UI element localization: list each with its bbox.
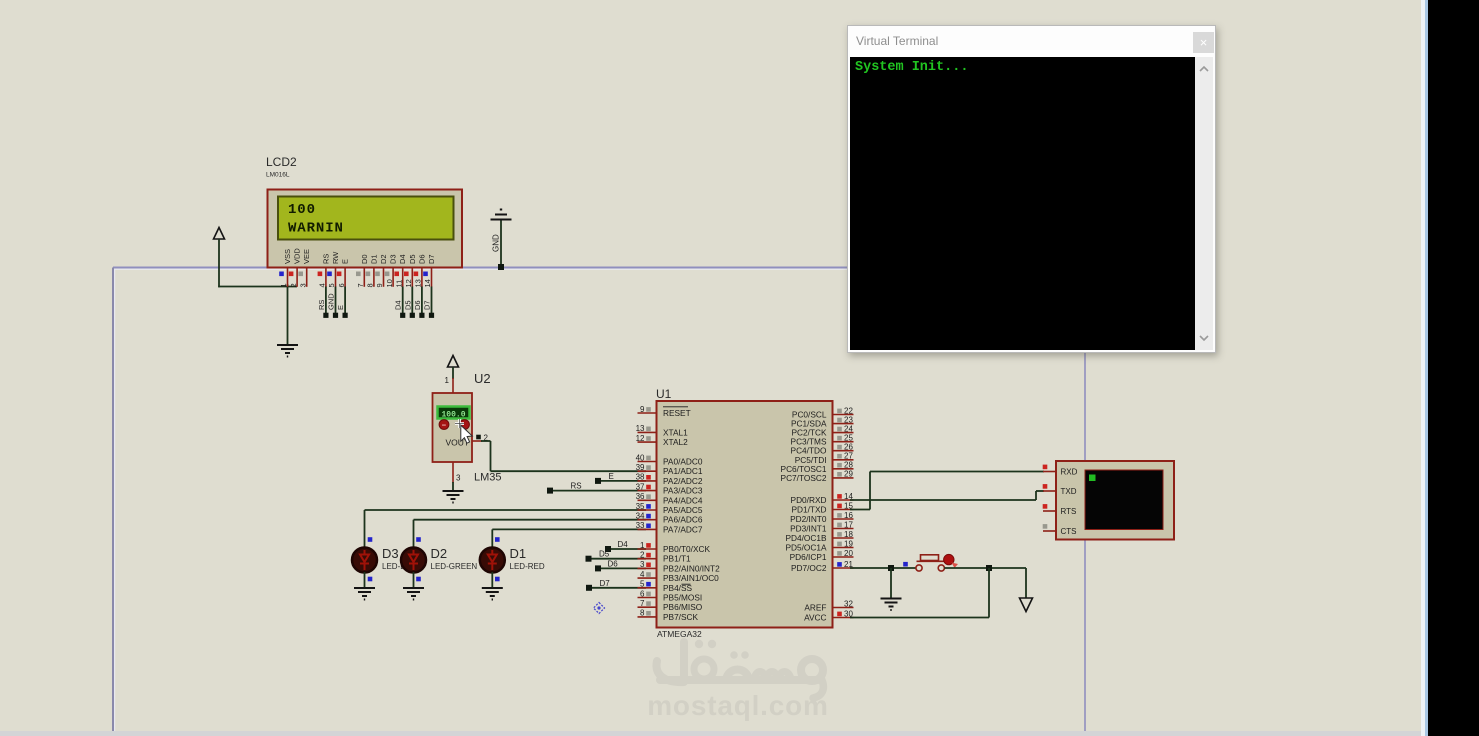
wire LCD net E <box>343 287 348 318</box>
svg-text:AREF: AREF <box>804 603 826 613</box>
svg-text:RXD: RXD <box>1061 468 1078 477</box>
svg-text:ATMEGA32: ATMEGA32 <box>657 629 702 639</box>
net label D5 <box>403 300 412 310</box>
wire net E to U1 PA2 <box>595 478 646 484</box>
sheet border right vertical <box>1084 353 1086 735</box>
svg-text:9: 9 <box>640 405 645 414</box>
svg-text:AVCC: AVCC <box>804 613 826 623</box>
LCD LCD2 body <box>268 190 463 268</box>
U1 pin 34 PA6/ADC6 <box>636 512 703 525</box>
svg-text:PA3/ADC3: PA3/ADC3 <box>663 486 703 496</box>
svg-text:3: 3 <box>298 283 307 287</box>
wire net RS to U1 PA3 <box>547 488 646 494</box>
ground LCD VSS <box>277 345 298 357</box>
wire D1 to ground <box>491 572 493 588</box>
U1 pin 29 PC7/TOSC2 <box>781 470 854 483</box>
svg-text:PB2/AIN0/INT2: PB2/AIN0/INT2 <box>663 563 720 573</box>
junction GND on border <box>498 264 504 270</box>
wire D2 to U1 PA6 <box>414 520 647 549</box>
watermark mostaql logo <box>657 640 824 698</box>
U1 pin 39 PA1/ADC1 <box>636 463 703 476</box>
terminal pin CTS <box>1043 524 1077 536</box>
svg-text:PB6/MISO: PB6/MISO <box>663 602 703 612</box>
LCD text line1 100 <box>288 202 316 218</box>
button component <box>916 554 958 571</box>
U1 pin 2 PB1/T1 <box>638 551 692 564</box>
svg-text:VSS: VSS <box>283 249 292 264</box>
svg-text:29: 29 <box>844 470 853 479</box>
svg-text:E: E <box>341 259 350 264</box>
terminal cursor block <box>1089 475 1096 482</box>
label D1 LED-RED <box>510 562 545 571</box>
U2 pin1 stub <box>445 376 453 394</box>
U1 pin 35 PA5/ADC5 <box>636 502 703 515</box>
svg-text:D6: D6 <box>608 559 619 568</box>
label D2 LED-GREEN <box>431 562 478 571</box>
svg-text:RS: RS <box>571 482 582 491</box>
svg-text:17: 17 <box>844 520 853 529</box>
svg-text:D7: D7 <box>423 300 432 310</box>
LED D3 state squares <box>368 537 373 581</box>
svg-text:18: 18 <box>844 530 853 539</box>
svg-text:D3: D3 <box>382 546 399 561</box>
label D3 LED type <box>382 562 406 571</box>
ground U2 <box>443 491 464 503</box>
bottom strip <box>0 731 1421 736</box>
svg-text:4: 4 <box>318 283 327 287</box>
U1 pin 32 AREF <box>804 599 853 612</box>
U1 pin 24 PC2/TCK <box>791 424 853 437</box>
svg-text:38: 38 <box>636 473 645 482</box>
svg-text:D6: D6 <box>417 254 426 264</box>
LCD LCD2 pin state squares <box>279 272 428 277</box>
svg-text:9: 9 <box>375 283 384 287</box>
ground D2 <box>403 588 424 600</box>
U1 pin 9 RESET <box>638 405 691 418</box>
wire U1 PD7 to button <box>850 567 917 569</box>
svg-text:D7: D7 <box>427 254 436 264</box>
svg-text:13: 13 <box>636 424 645 433</box>
svg-text:D5: D5 <box>403 300 412 310</box>
LCD LCD2 screen <box>278 197 454 240</box>
sheet border left vertical <box>113 268 115 736</box>
svg-text:16: 16 <box>844 511 853 520</box>
net label D4 <box>618 540 629 549</box>
power symbol U2 pin1 arrow <box>448 356 459 380</box>
wire LCD net RS <box>323 287 328 318</box>
svg-text:35: 35 <box>636 502 645 511</box>
U1 pin 28 PC6/TOSC1 <box>781 461 854 474</box>
label LCD2 <box>266 155 297 169</box>
wire VDD to LCD pin2 <box>218 286 297 288</box>
svg-text:WARNIN: WARNIN <box>288 221 344 237</box>
svg-text:40: 40 <box>636 453 645 462</box>
svg-text:PD5/OC1A: PD5/OC1A <box>785 543 827 553</box>
wire U1 PD0 to terminal TXD <box>850 491 1044 500</box>
svg-text:28: 28 <box>844 461 853 470</box>
U1 pin 15 PD1/TXD <box>791 501 853 514</box>
svg-text:PD1/TXD: PD1/TXD <box>791 505 826 515</box>
svg-text:U1: U1 <box>656 387 672 401</box>
svg-text:D6: D6 <box>413 300 422 310</box>
wire LCD net D5 <box>410 287 415 318</box>
svg-text:PC7/TOSC2: PC7/TOSC2 <box>781 473 827 483</box>
U1 pin 30 AVCC <box>804 609 853 622</box>
svg-text:6: 6 <box>640 589 645 598</box>
wire net D5 to U1 PB1 <box>586 556 647 562</box>
svg-text:7: 7 <box>356 283 365 287</box>
U1 pin 14 PD0/RXD <box>791 492 854 505</box>
svg-text:RTS: RTS <box>1061 507 1077 516</box>
origin marker <box>594 603 605 614</box>
svg-text:10: 10 <box>385 279 394 287</box>
svg-text:1: 1 <box>279 283 288 287</box>
svg-text:D7: D7 <box>600 579 611 588</box>
black bar right <box>1428 0 1479 736</box>
svg-text:34: 34 <box>636 512 645 521</box>
U1 pin 3 PB2/AIN0/INT2 <box>638 560 721 573</box>
svg-text:PD3/INT1: PD3/INT1 <box>790 524 827 534</box>
svg-text:1: 1 <box>640 541 645 550</box>
ground button <box>881 599 902 611</box>
svg-text:7: 7 <box>640 599 645 608</box>
svg-text:33: 33 <box>636 521 645 530</box>
svg-text:5: 5 <box>327 283 336 287</box>
svg-text:E: E <box>609 472 614 481</box>
net label E <box>336 305 345 310</box>
net label D7 <box>600 579 611 588</box>
wire D3 to ground <box>364 572 366 588</box>
wire junction to ground <box>890 568 892 599</box>
U2 down button <box>439 420 449 430</box>
svg-text:100: 100 <box>288 202 316 218</box>
U1 pin 20 PD6/ICP1 <box>790 549 854 562</box>
U1 pin 37 PA3/ADC3 <box>636 482 703 495</box>
svg-text:VDD: VDD <box>293 248 302 264</box>
U1 pin 1 PB0/T0/XCK <box>638 541 711 554</box>
power symbol VDD arrow <box>214 228 225 288</box>
mouse cursor <box>455 419 472 443</box>
svg-text:U2: U2 <box>474 371 491 386</box>
svg-text:LED-GREEN: LED-GREEN <box>431 562 478 571</box>
net label D6 <box>608 559 619 568</box>
svg-text:mostaql.com: mostaql.com <box>647 690 829 721</box>
label D2 <box>431 546 448 561</box>
svg-text:19: 19 <box>844 539 853 548</box>
svg-text:3: 3 <box>456 474 461 483</box>
U1 pin 23 PC1/SDA <box>791 415 854 428</box>
screen right edge highlight <box>1421 0 1425 736</box>
svg-text:RW: RW <box>331 251 340 264</box>
svg-text:TXD: TXD <box>1061 487 1077 496</box>
U1 pin 5 PB4/SS <box>638 580 693 593</box>
svg-text:RS: RS <box>321 254 330 264</box>
svg-text:5: 5 <box>640 580 645 589</box>
label U2 <box>474 371 491 386</box>
label D3 <box>382 546 399 561</box>
svg-text:D4: D4 <box>394 300 403 310</box>
junction button AVCC <box>986 565 992 571</box>
svg-text:39: 39 <box>636 463 645 472</box>
LED D2 state squares <box>416 537 421 581</box>
svg-text:PA0/ADC0: PA0/ADC0 <box>663 457 703 467</box>
svg-text:11: 11 <box>394 280 403 288</box>
svg-text:PA1/ADC1: PA1/ADC1 <box>663 466 703 476</box>
svg-text:PB3/AIN1/OC0: PB3/AIN1/OC0 <box>663 573 719 583</box>
terminal pin RXD <box>1043 465 1078 477</box>
U1 pin 7 PB6/MISO <box>638 599 703 612</box>
wire LCD net D6 <box>419 287 424 318</box>
svg-text:20: 20 <box>844 549 853 558</box>
svg-text:E: E <box>336 305 345 310</box>
svg-text:3: 3 <box>640 560 645 569</box>
svg-text:RS: RS <box>317 300 326 310</box>
svg-text:8: 8 <box>366 283 375 287</box>
U1 pin 17 PD3/INT1 <box>790 520 853 533</box>
svg-text:XTAL2: XTAL2 <box>663 437 688 447</box>
wire U2 pin3 to ground <box>452 482 454 491</box>
wire U2 VOUT to U1 PA1 <box>481 441 646 471</box>
svg-text:14: 14 <box>423 279 432 287</box>
svg-text:PB0/T0/XCK: PB0/T0/XCK <box>663 544 711 554</box>
wire U1 PD1 to terminal RXD <box>850 472 1044 510</box>
svg-text:PA4/ADC4: PA4/ADC4 <box>663 495 703 505</box>
wire button to down-arrow <box>944 568 1026 598</box>
LED D1 <box>480 548 505 573</box>
U1 pin 8 PB7/SCK <box>638 609 699 622</box>
svg-text:LED-RED: LED-RED <box>510 562 545 571</box>
net label RS <box>571 482 582 491</box>
label ATMEGA32 <box>657 629 702 639</box>
svg-text:PB5/MOSI: PB5/MOSI <box>663 593 702 603</box>
svg-text:D0: D0 <box>360 254 369 264</box>
svg-text:−: − <box>442 420 447 429</box>
U2 VOUT label <box>446 438 470 448</box>
label D1 <box>510 546 527 561</box>
U1 pin 6 PB5/MOSI <box>638 589 703 602</box>
svg-text:RESET: RESET <box>663 408 691 418</box>
LED D3 <box>352 548 377 573</box>
U1 pin 38 PA2/ADC2 <box>636 473 703 486</box>
svg-text:D1: D1 <box>369 254 378 264</box>
ground D1 <box>482 588 503 600</box>
svg-text:37: 37 <box>636 482 645 491</box>
net label D7 <box>423 300 432 310</box>
svg-text:D1: D1 <box>510 546 527 561</box>
wire net D6 to U1 PB2 <box>595 565 646 571</box>
svg-text:1: 1 <box>445 376 450 385</box>
svg-text:GND: GND <box>327 293 336 310</box>
svg-text:PD2/INT0: PD2/INT0 <box>790 514 827 524</box>
label U1 <box>656 387 672 401</box>
down arrow symbol <box>1020 598 1033 612</box>
svg-text:PB1/T1: PB1/T1 <box>663 554 691 564</box>
svg-text:VEE: VEE <box>302 249 311 264</box>
svg-text:PA2/ADC2: PA2/ADC2 <box>663 476 703 486</box>
LED D1 state squares <box>495 537 500 581</box>
terminal pin RTS <box>1043 504 1077 516</box>
svg-text:LM016L: LM016L <box>266 172 290 179</box>
U1 pin 18 PD4/OC1B <box>785 530 853 543</box>
svg-text:36: 36 <box>636 492 645 501</box>
label LM35 <box>474 472 502 484</box>
wire D3 to U1 PA5 <box>365 510 647 549</box>
junction PD7 ground <box>888 565 894 571</box>
svg-text:D3: D3 <box>389 254 398 264</box>
ground D3 <box>354 588 375 600</box>
LCD LCD2 pin stubs <box>288 268 432 287</box>
svg-text:PD6/ICP1: PD6/ICP1 <box>790 552 827 562</box>
button state square <box>903 562 908 567</box>
svg-text:22: 22 <box>844 406 853 415</box>
U2 up button <box>460 420 470 430</box>
wire net D7 to U1 PB4 <box>586 585 646 591</box>
U1 pin 16 PD2/INT0 <box>790 511 853 524</box>
svg-text:100.0: 100.0 <box>441 411 465 420</box>
svg-text:2: 2 <box>640 551 645 560</box>
MCU U1 body <box>657 401 833 628</box>
svg-text:XTAL1: XTAL1 <box>663 427 688 437</box>
LCD text line2 WARNIN <box>288 221 344 237</box>
svg-text:PD0/RXD: PD0/RXD <box>791 495 827 505</box>
wire net D4 to U1 PB0 <box>605 546 646 552</box>
svg-text:2: 2 <box>289 283 298 287</box>
U2 display 100.0 <box>438 407 470 420</box>
wire LCD VSS to ground <box>287 284 289 345</box>
svg-text:25: 25 <box>844 434 853 443</box>
svg-text:24: 24 <box>844 424 853 433</box>
U1 pin 22 PC0/SCL <box>792 406 854 419</box>
svg-text:PD7/OC2: PD7/OC2 <box>791 563 827 573</box>
U1 pin 19 PD5/OC1A <box>785 539 853 552</box>
svg-text:PA7/ADC7: PA7/ADC7 <box>663 524 703 534</box>
svg-text:GND: GND <box>492 234 501 252</box>
terminal component body <box>1056 461 1174 540</box>
svg-text:PA6/ADC6: PA6/ADC6 <box>663 515 703 525</box>
wire LCD net D7 <box>429 287 434 318</box>
svg-text:13: 13 <box>414 279 423 287</box>
terminal screen <box>1085 470 1163 530</box>
svg-text:27: 27 <box>844 452 853 461</box>
U1 pin 12 XTAL2 <box>636 434 689 447</box>
svg-text:23: 23 <box>844 415 853 424</box>
LCD LCD2 pin names <box>283 248 436 264</box>
svg-text:D4: D4 <box>618 540 629 549</box>
svg-text:4: 4 <box>640 570 645 579</box>
net label D5 <box>599 550 610 559</box>
U1 pin 26 PC4/TDO <box>791 443 854 456</box>
net label D4 <box>394 300 403 310</box>
net label RS <box>317 300 326 310</box>
LED D2 <box>401 548 426 573</box>
svg-text:26: 26 <box>844 443 853 452</box>
wire LCD net GND <box>333 287 338 318</box>
U1 pin 40 PA0/ADC0 <box>636 453 703 466</box>
svg-text:PA5/ADC5: PA5/ADC5 <box>663 505 703 515</box>
sensor U2 LM35 body <box>433 393 473 462</box>
svg-text:CTS: CTS <box>1061 527 1077 536</box>
wire D1 to U1 PA7 <box>492 529 646 548</box>
svg-text:32: 32 <box>844 599 853 608</box>
svg-text:12: 12 <box>404 279 413 287</box>
svg-text:6: 6 <box>337 283 346 287</box>
LCD LCD2 pin numbers 1-14 <box>279 279 432 287</box>
label LM016L <box>266 172 290 179</box>
U2 pin2 stub <box>472 434 489 443</box>
net label D6 <box>413 300 422 310</box>
svg-text:D2: D2 <box>431 546 448 561</box>
U1 pin 21 PD7/OC2 <box>791 560 854 573</box>
svg-text:D5: D5 <box>599 550 610 559</box>
U2 pin3 stub <box>453 462 461 483</box>
svg-text:D2: D2 <box>379 254 388 264</box>
U1 pin 33 PA7/ADC7 <box>636 521 703 534</box>
svg-text:PD4/OC1B: PD4/OC1B <box>785 533 827 543</box>
svg-text:LM35: LM35 <box>474 472 502 484</box>
virtual terminal window <box>847 25 1216 353</box>
svg-text:8: 8 <box>640 609 645 618</box>
svg-text:D5: D5 <box>408 254 417 264</box>
net label E <box>609 472 614 481</box>
U1 pin 13 XTAL1 <box>636 424 689 437</box>
wire junction to U1 AVCC <box>850 568 989 618</box>
wire LCD net D4 <box>400 287 405 318</box>
svg-text:PB7/SCK: PB7/SCK <box>663 612 699 622</box>
svg-text:D4: D4 <box>398 254 407 264</box>
terminal pin TXD <box>1043 484 1077 496</box>
U1 pin 27 PC5/TDI <box>795 452 854 465</box>
net label GND <box>327 293 336 310</box>
U1 pin 4 PB3/AIN1/OC0 <box>638 570 720 583</box>
U1 pin 36 PA4/ADC4 <box>636 492 703 505</box>
power symbol GND net <box>491 210 512 268</box>
svg-text:12: 12 <box>636 434 645 443</box>
sheet border horizontal <box>113 268 848 270</box>
wire D2 to ground <box>413 572 415 588</box>
U1 pin 25 PC3/TMS <box>791 434 854 447</box>
svg-text:LCD2: LCD2 <box>266 155 297 169</box>
